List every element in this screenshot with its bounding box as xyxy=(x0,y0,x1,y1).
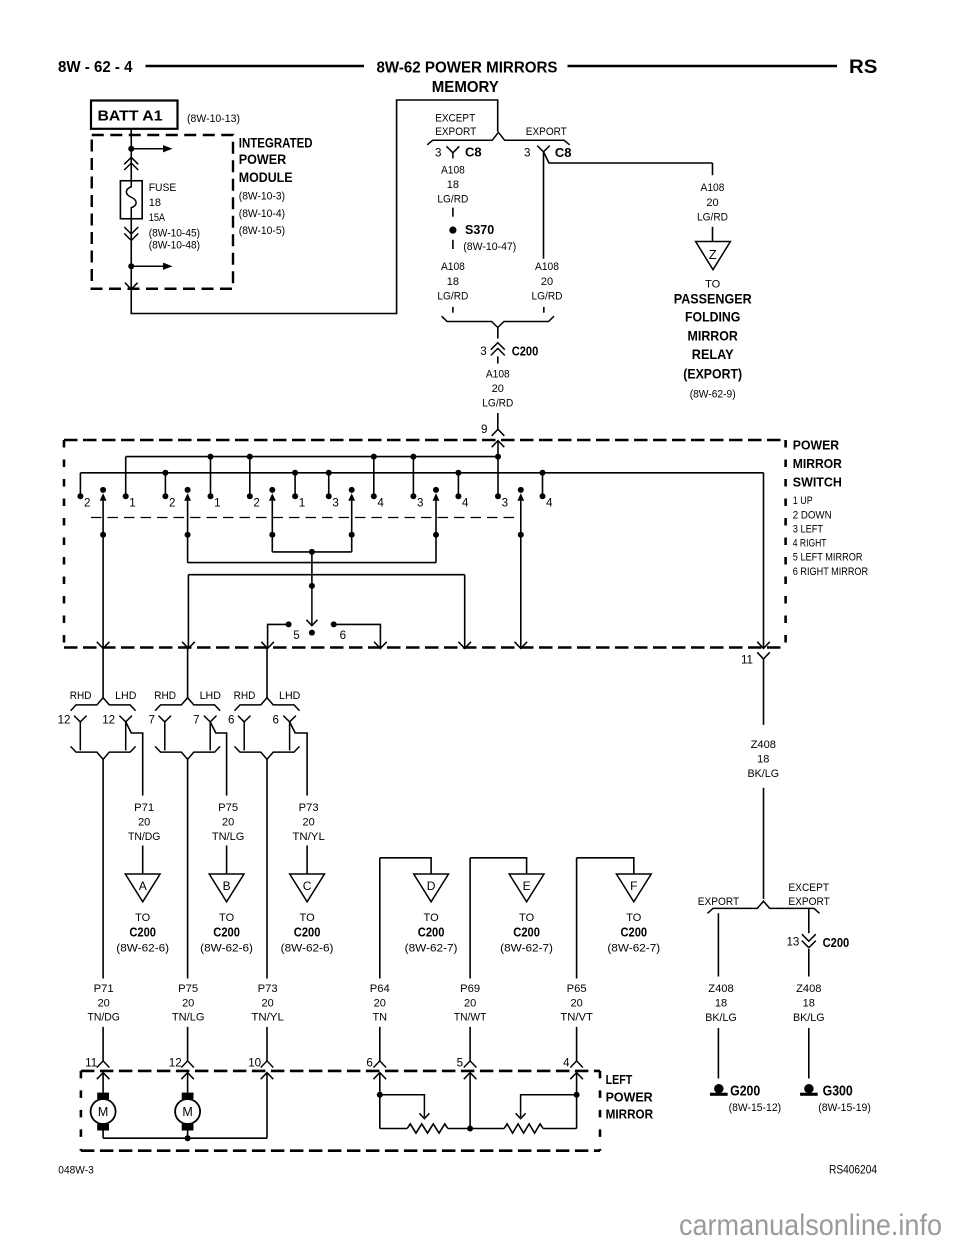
integrated power module dashed boundary xyxy=(92,135,233,289)
svg-text:2: 2 xyxy=(169,496,175,509)
svg-text:20: 20 xyxy=(222,817,234,829)
switch wiper pole at x=187.6 xyxy=(185,487,191,493)
svg-text:LG/RD: LG/RD xyxy=(437,290,468,302)
svg-text:C200: C200 xyxy=(513,924,540,939)
svg-text:5: 5 xyxy=(457,1057,463,1070)
connector left mirror pin 6 xyxy=(374,1061,387,1068)
switch bus upper xyxy=(126,456,498,458)
svg-text:P75: P75 xyxy=(218,802,238,814)
svg-text:TN/WT: TN/WT xyxy=(454,1012,487,1024)
svg-text:20: 20 xyxy=(570,997,582,1009)
switch wiper pole at x=103.1 xyxy=(100,487,106,493)
svg-text:BK/LG: BK/LG xyxy=(793,1012,825,1024)
switch bus lower xyxy=(80,472,763,474)
svg-text:RS: RS xyxy=(849,57,877,78)
svg-text:3 LEFT: 3 LEFT xyxy=(793,524,823,536)
svg-text:(8W-15-12): (8W-15-12) xyxy=(729,1102,782,1114)
svg-text:C200: C200 xyxy=(512,344,539,359)
svg-text:9: 9 xyxy=(481,423,487,436)
svg-text:LHD: LHD xyxy=(279,690,300,702)
svg-text:(8W-10-45): (8W-10-45) xyxy=(149,227,200,239)
wiper arrow right xyxy=(521,1095,577,1113)
inline connector chevrons up xyxy=(124,157,138,164)
resistor right xyxy=(470,1128,504,1130)
wire stub to brace right xyxy=(543,307,545,313)
selector contact 6 xyxy=(331,621,337,627)
splice brace bottom at x=103.1 xyxy=(71,746,136,759)
connector C8 pin 3 except-export xyxy=(447,146,460,153)
switch exit arrow at x=188.4 xyxy=(182,642,195,649)
svg-text:TN/LG: TN/LG xyxy=(212,831,245,843)
tap arrow lower xyxy=(131,265,163,267)
svg-text:(8W-62-6): (8W-62-6) xyxy=(200,942,253,954)
svg-text:D: D xyxy=(427,879,436,893)
svg-text:C8: C8 xyxy=(555,145,572,160)
svg-text:PASSENGER: PASSENGER xyxy=(674,290,752,306)
splice brace at C8 xyxy=(427,132,569,145)
svg-text:P75: P75 xyxy=(178,983,198,995)
svg-text:3: 3 xyxy=(332,496,338,509)
svg-text:TN/YL: TN/YL xyxy=(292,831,325,843)
svg-text:LG/RD: LG/RD xyxy=(482,398,513,410)
svg-text:LG/RD: LG/RD xyxy=(437,194,468,206)
svg-text:E: E xyxy=(523,879,531,893)
svg-text:15A: 15A xyxy=(149,212,166,224)
off-page reference triangle E xyxy=(509,874,544,902)
svg-text:BK/LG: BK/LG xyxy=(705,1012,737,1024)
svg-text:M: M xyxy=(98,1105,108,1119)
svg-text:TN: TN xyxy=(372,1012,387,1024)
wire to left mirror pin 5 xyxy=(469,1027,471,1061)
ground G200 xyxy=(714,1084,723,1093)
svg-text:4: 4 xyxy=(563,1057,570,1070)
svg-text:P71: P71 xyxy=(134,802,154,814)
svg-text:G200: G200 xyxy=(730,1083,760,1100)
svg-text:TO: TO xyxy=(626,912,642,924)
switch exit arrow at x=520.8 xyxy=(515,642,528,649)
svg-text:(8W-10-3): (8W-10-3) xyxy=(239,190,285,202)
svg-text:(8W-62-7): (8W-62-7) xyxy=(500,942,553,954)
svg-text:LG/RD: LG/RD xyxy=(532,290,563,302)
wire Z408 to splice brace xyxy=(763,788,765,899)
switch wiper pole at x=520.8 xyxy=(518,487,524,493)
wire loop to reference E xyxy=(469,858,471,979)
svg-text:FUSE: FUSE xyxy=(149,182,177,194)
wire branch to reference B xyxy=(226,846,228,875)
svg-text:20: 20 xyxy=(98,997,110,1009)
svg-text:(8W-10-13): (8W-10-13) xyxy=(187,113,240,125)
svg-text:(8W-10-5): (8W-10-5) xyxy=(239,225,285,237)
svg-text:12: 12 xyxy=(58,714,71,727)
wire loop to reference D xyxy=(379,858,381,979)
svg-text:EXPORT: EXPORT xyxy=(526,126,567,138)
branch wire LHD xyxy=(290,722,308,796)
svg-text:G300: G300 xyxy=(823,1083,853,1100)
svg-text:(8W-10-4): (8W-10-4) xyxy=(239,208,285,220)
switch contact 3 at x=413.4 xyxy=(412,457,414,497)
svg-text:P73: P73 xyxy=(258,983,278,995)
svg-text:(EXPORT): (EXPORT) xyxy=(683,365,742,381)
switch exit arrow at x=103.1 xyxy=(97,642,110,649)
svg-text:C200: C200 xyxy=(621,924,648,939)
switch exit arrow at x=267.6 xyxy=(261,642,274,649)
svg-text:1 UP: 1 UP xyxy=(793,495,813,507)
off-page reference triangle D xyxy=(414,874,449,902)
wire switch to connector group at x=103.1 xyxy=(102,648,104,698)
svg-text:F: F xyxy=(630,879,637,893)
svg-text:(8W-15-19): (8W-15-19) xyxy=(818,1102,871,1114)
svg-text:C200: C200 xyxy=(294,924,321,939)
svg-text:S370: S370 xyxy=(465,222,494,237)
svg-text:LHD: LHD xyxy=(115,690,136,702)
svg-text:5: 5 xyxy=(293,629,299,642)
svg-text:20: 20 xyxy=(138,817,150,829)
svg-text:TN/DG: TN/DG xyxy=(128,831,161,843)
switch contact 2 at x=249.8 xyxy=(249,457,251,497)
connector LHD pin 7 xyxy=(204,716,217,722)
svg-text:18: 18 xyxy=(447,179,459,191)
svg-text:FOLDING: FOLDING xyxy=(685,309,740,325)
svg-text:BK/LG: BK/LG xyxy=(748,768,780,780)
svg-text:TN/LG: TN/LG xyxy=(172,1012,205,1024)
selector contact 5 xyxy=(286,621,292,627)
wire fuse to module exit xyxy=(130,219,132,289)
connector left mirror pin 4 xyxy=(570,1061,583,1068)
switch exit arrow at x=380.4 xyxy=(374,642,387,649)
svg-text:(8W-62-7): (8W-62-7) xyxy=(405,942,458,954)
off-page reference triangle F xyxy=(616,874,651,902)
svg-text:RHD: RHD xyxy=(154,690,176,702)
wire motor common xyxy=(103,1137,267,1139)
wire link pole2 pole5 xyxy=(188,562,436,564)
svg-text:1: 1 xyxy=(129,496,135,509)
svg-text:7: 7 xyxy=(149,714,155,727)
svg-text:2: 2 xyxy=(84,496,90,509)
wire battery to fuse xyxy=(130,129,132,181)
mechanical gang dashed line xyxy=(91,517,517,519)
wire trunk A108 from module to C8 xyxy=(131,100,497,314)
svg-text:20: 20 xyxy=(182,997,194,1009)
wire to left mirror pin 11 xyxy=(102,1027,104,1061)
wire Z408 upper xyxy=(763,659,765,725)
svg-text:048W-3: 048W-3 xyxy=(58,1164,94,1176)
svg-text:2 DOWN: 2 DOWN xyxy=(793,510,832,522)
svg-text:2: 2 xyxy=(253,496,259,509)
mirror pin 5 wire xyxy=(469,1073,471,1129)
svg-text:P65: P65 xyxy=(567,983,587,995)
svg-text:RS406204: RS406204 xyxy=(829,1162,877,1176)
wire cross link to exits xyxy=(188,574,464,576)
svg-text:MODULE: MODULE xyxy=(239,170,293,185)
wire export branch xyxy=(717,913,719,976)
wire switch to connector group at x=187.6 xyxy=(187,648,189,698)
svg-text:8W - 62 - 4: 8W - 62 - 4 xyxy=(58,59,133,76)
power mirror switch dashed boundary xyxy=(64,439,786,442)
svg-text:1: 1 xyxy=(214,496,220,509)
svg-text:6: 6 xyxy=(340,629,346,642)
connector LHD pin 12 xyxy=(119,716,132,722)
svg-text:Z408: Z408 xyxy=(796,983,821,995)
svg-text:TO: TO xyxy=(300,912,316,924)
connector left mirror pin 11 xyxy=(97,1061,110,1068)
svg-text:TO: TO xyxy=(424,912,440,924)
splice brace RHD/LHD top at x=267.0 xyxy=(235,698,300,711)
mirror pin 4 wire xyxy=(576,1073,578,1129)
connector left mirror pin 10 xyxy=(261,1061,274,1068)
svg-text:5 LEFT MIRROR: 5 LEFT MIRROR xyxy=(793,552,863,564)
svg-text:Z: Z xyxy=(709,247,717,262)
switch contact 3 at x=498 xyxy=(497,457,499,497)
branch wire LHD xyxy=(126,722,143,796)
svg-text:6: 6 xyxy=(366,1057,372,1070)
wire branch to reference C xyxy=(306,846,308,875)
switch contact 4 at x=458.4 xyxy=(457,473,459,497)
svg-text:18: 18 xyxy=(715,997,727,1009)
svg-text:20: 20 xyxy=(706,197,718,209)
svg-text:7: 7 xyxy=(193,714,199,727)
splice brace export / except export xyxy=(708,901,820,913)
ground G300 xyxy=(804,1084,813,1093)
svg-text:20: 20 xyxy=(541,276,553,288)
svg-text:C200: C200 xyxy=(129,924,156,939)
svg-text:18: 18 xyxy=(447,276,459,288)
splice brace bottom at x=187.6 xyxy=(155,746,220,759)
svg-text:BATT A1: BATT A1 xyxy=(98,108,163,125)
svg-text:A108: A108 xyxy=(535,261,559,273)
svg-text:TN/VT: TN/VT xyxy=(560,1012,593,1024)
svg-text:RHD: RHD xyxy=(234,690,256,702)
switch contact 1 at x=210.5 xyxy=(210,457,212,497)
wire C8 export down xyxy=(543,152,545,259)
svg-text:P64: P64 xyxy=(370,983,390,995)
wire brace to mirror xyxy=(102,759,104,978)
switch contact 2 at x=80.4 xyxy=(79,473,81,497)
module exit arrow xyxy=(125,283,138,290)
junction dot upper xyxy=(128,146,134,152)
switch wiper pole at x=351.7 xyxy=(349,487,355,493)
svg-text:MIRROR: MIRROR xyxy=(606,1106,654,1121)
svg-text:18: 18 xyxy=(803,997,815,1009)
splice brace bottom at x=267.0 xyxy=(235,746,300,759)
svg-text:C200: C200 xyxy=(418,924,445,939)
svg-text:13: 13 xyxy=(786,936,799,949)
switch wiper pole at x=436 xyxy=(433,487,439,493)
mirror motor M at x=187.6 xyxy=(187,1073,189,1093)
svg-text:P69: P69 xyxy=(460,983,480,995)
wire brace to mirror xyxy=(266,759,268,978)
svg-text:(8W-10-48): (8W-10-48) xyxy=(149,239,200,251)
svg-text:20: 20 xyxy=(261,997,273,1009)
connector RHD pin 6 xyxy=(238,716,251,722)
branch wire to relay xyxy=(544,152,713,163)
svg-text:M: M xyxy=(182,1105,192,1119)
connector RHD pin 7 xyxy=(159,716,172,722)
svg-text:12: 12 xyxy=(169,1057,182,1070)
wire to power mirror switch xyxy=(497,413,499,429)
svg-text:3: 3 xyxy=(502,496,508,509)
wire loop to reference F xyxy=(576,858,578,979)
switch exit pin 11 xyxy=(757,642,770,649)
splice brace RHD/LHD top at x=187.6 xyxy=(155,698,220,711)
svg-text:4: 4 xyxy=(546,496,553,509)
switch exit arrow at x=464.7 xyxy=(458,642,471,649)
svg-text:1: 1 xyxy=(299,496,305,509)
svg-text:(8W-62-9): (8W-62-9) xyxy=(690,389,736,401)
wiper arrow left xyxy=(380,1095,425,1113)
svg-text:Z408: Z408 xyxy=(708,983,733,995)
junction dot lower xyxy=(128,263,134,269)
svg-text:EXPORT: EXPORT xyxy=(435,126,476,138)
tap arrow upper xyxy=(131,148,163,150)
switch wiper pole at x=272.3 xyxy=(269,487,275,493)
connector C200 pin 13 xyxy=(802,934,816,941)
svg-text:20: 20 xyxy=(492,383,504,395)
off-page reference Z to passenger folding mirror relay xyxy=(696,242,731,270)
connector LHD pin 6 xyxy=(283,716,296,722)
switch contact 1 at x=125.7 xyxy=(125,457,127,497)
svg-text:(8W-62-6): (8W-62-6) xyxy=(281,942,334,954)
svg-text:MIRROR: MIRROR xyxy=(688,327,738,343)
svg-text:A108: A108 xyxy=(441,164,465,176)
wire branch to reference A xyxy=(142,846,144,875)
splice brace RHD/LHD top at x=103.1 xyxy=(71,698,136,711)
wire to left mirror pin 6 xyxy=(379,1027,381,1061)
svg-text:TO: TO xyxy=(219,912,235,924)
splice S370 xyxy=(449,227,456,234)
svg-text:P73: P73 xyxy=(299,802,319,814)
svg-text:EXPORT: EXPORT xyxy=(788,896,830,908)
resistor left xyxy=(380,1128,407,1130)
svg-text:A: A xyxy=(139,879,147,893)
svg-text:A108: A108 xyxy=(486,369,510,381)
svg-text:C200: C200 xyxy=(823,935,850,950)
svg-text:10: 10 xyxy=(248,1057,261,1070)
svg-text:POWER: POWER xyxy=(239,152,287,167)
svg-text:C: C xyxy=(303,879,312,893)
wire common to pin 10 xyxy=(266,1073,268,1139)
splice brace to C200 xyxy=(442,316,554,327)
wire to G200 xyxy=(717,1028,719,1079)
svg-text:TO: TO xyxy=(705,278,721,290)
svg-text:(8W-10-47): (8W-10-47) xyxy=(463,241,516,253)
battery feed box BATT A1 xyxy=(91,101,178,129)
connector RHD pin 12 xyxy=(74,716,87,722)
svg-text:EXCEPT: EXCEPT xyxy=(435,112,475,124)
switch contact 1 at x=295.1 xyxy=(294,473,296,497)
svg-text:11: 11 xyxy=(741,654,753,667)
wiper link bar center xyxy=(272,551,351,553)
svg-text:(8W-62-6): (8W-62-6) xyxy=(116,942,169,954)
header rule left xyxy=(146,65,365,68)
connector left mirror pin 12 xyxy=(181,1061,194,1068)
wire bus lower to pin 11 exit xyxy=(763,473,765,648)
wire brace to mirror xyxy=(187,759,189,978)
svg-text:TN/DG: TN/DG xyxy=(87,1012,120,1024)
wire selector common xyxy=(311,552,313,586)
svg-text:POWER: POWER xyxy=(606,1089,654,1104)
switch contact 4 at x=373.8 xyxy=(373,457,375,497)
svg-text:20: 20 xyxy=(374,997,386,1009)
svg-text:TO: TO xyxy=(135,912,151,924)
svg-text:C8: C8 xyxy=(465,144,482,159)
header rule right xyxy=(568,65,838,68)
svg-text:3: 3 xyxy=(524,146,530,159)
wire to left mirror pin 10 xyxy=(266,1027,268,1061)
wire stub to brace left xyxy=(452,307,454,313)
wire stub below S370 xyxy=(452,240,454,249)
svg-text:3: 3 xyxy=(435,146,441,159)
svg-text:8W-62 POWER MIRRORS: 8W-62 POWER MIRRORS xyxy=(377,60,558,77)
svg-text:EXPORT: EXPORT xyxy=(698,896,740,908)
branch wire LHD xyxy=(210,722,226,796)
svg-text:A108: A108 xyxy=(701,182,725,194)
svg-text:3: 3 xyxy=(480,345,486,358)
connector left mirror pin 5 xyxy=(464,1061,477,1068)
wire to left mirror pin 12 xyxy=(187,1027,189,1061)
wire to left mirror pin 4 xyxy=(576,1027,578,1061)
svg-text:EXCEPT: EXCEPT xyxy=(788,882,829,894)
inline connector chevrons down xyxy=(124,227,138,234)
switch contact 3 at x=328.75 xyxy=(328,473,330,497)
svg-text:MIRROR: MIRROR xyxy=(793,456,843,471)
svg-text:carmanualsonline.info: carmanualsonline.info xyxy=(679,1209,942,1242)
connector pin 9 power mirror switch xyxy=(492,429,505,436)
svg-text:4: 4 xyxy=(462,496,469,509)
svg-text:RHD: RHD xyxy=(70,690,92,702)
svg-text:C200: C200 xyxy=(213,924,240,939)
wire A108 to folding mirror relay xyxy=(712,163,714,175)
svg-text:LEFT: LEFT xyxy=(606,1072,633,1087)
svg-text:20: 20 xyxy=(302,817,314,829)
svg-text:4 RIGHT: 4 RIGHT xyxy=(793,538,827,550)
svg-text:Z408: Z408 xyxy=(751,739,776,751)
switch contact 4 at x=542.5 xyxy=(542,473,544,497)
svg-text:3: 3 xyxy=(417,496,423,509)
svg-text:LG/RD: LG/RD xyxy=(697,211,728,223)
off-page reference triangle A xyxy=(125,874,160,902)
svg-text:B: B xyxy=(223,879,231,893)
mirror motor M at x=103.1 xyxy=(102,1073,104,1093)
svg-text:TN/YL: TN/YL xyxy=(251,1012,284,1024)
svg-text:A108: A108 xyxy=(441,261,465,273)
fuse 18 15A xyxy=(120,181,142,219)
svg-text:POWER: POWER xyxy=(793,438,840,453)
svg-text:RELAY: RELAY xyxy=(692,346,734,362)
svg-text:6 RIGHT MIRROR: 6 RIGHT MIRROR xyxy=(793,566,868,578)
svg-text:20: 20 xyxy=(464,997,476,1009)
svg-text:P71: P71 xyxy=(94,983,114,995)
wire except-export branch xyxy=(808,908,810,933)
svg-text:18: 18 xyxy=(149,197,161,209)
svg-text:LHD: LHD xyxy=(200,690,221,702)
svg-text:11: 11 xyxy=(85,1057,97,1070)
svg-text:TO: TO xyxy=(519,912,535,924)
svg-text:(8W-62-7): (8W-62-7) xyxy=(607,942,660,954)
switch contact 2 at x=165.4 xyxy=(164,473,166,497)
svg-text:INTEGRATED: INTEGRATED xyxy=(239,135,313,150)
left power mirror dashed boundary xyxy=(81,1070,600,1073)
wire to G300 xyxy=(808,1028,810,1079)
svg-text:SWITCH: SWITCH xyxy=(793,474,842,489)
svg-text:6: 6 xyxy=(273,714,279,727)
off-page reference triangle B xyxy=(209,874,244,902)
svg-text:18: 18 xyxy=(757,754,769,766)
svg-text:MEMORY: MEMORY xyxy=(432,79,499,96)
wire brace to C200 xyxy=(497,328,499,339)
wire switch to connector group at x=267.0 xyxy=(266,648,268,698)
svg-text:12: 12 xyxy=(102,714,115,727)
connector C8 pin 3 export xyxy=(537,146,550,152)
